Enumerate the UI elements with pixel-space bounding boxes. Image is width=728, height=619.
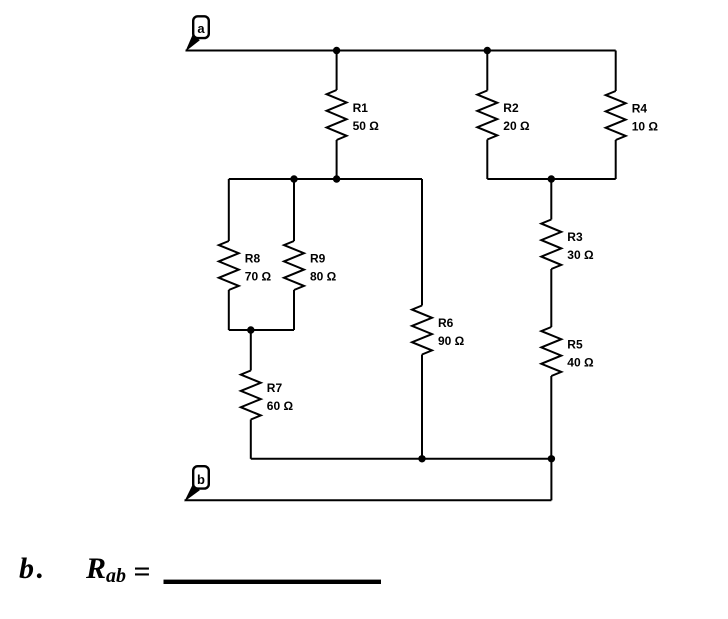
junction: top rail / R2 top <box>484 47 491 54</box>
label R7 60 Ω <box>267 381 294 413</box>
label R4 10 Ω <box>632 102 659 134</box>
terminal a (callout box with letter a and tail) <box>185 16 209 51</box>
svg-text:R2: R2 <box>503 101 519 115</box>
svg-text:80 Ω: 80 Ω <box>310 270 337 284</box>
label R9 80 Ω <box>310 252 337 284</box>
wire: R8-R9 bottom connecting wire <box>229 329 294 331</box>
junction: inner bottom rail / drop to b rail <box>548 455 555 462</box>
svg-text:10 Ω: 10 Ω <box>632 120 659 134</box>
wire: R2-R4 bottom connecting wire <box>487 178 615 180</box>
svg-text:R5: R5 <box>567 338 583 352</box>
junction: middle rail / R9 top <box>290 175 297 182</box>
resistor R5 <box>541 327 561 459</box>
svg-text:R9: R9 <box>310 252 326 266</box>
caption: answer blank underline <box>164 580 382 584</box>
junction: top rail / R1 top <box>333 47 340 54</box>
label R8 70 Ω <box>245 252 272 284</box>
junction: inner bottom rail / R6 bottom <box>418 455 425 462</box>
resistor R6 <box>412 179 432 459</box>
svg-text:50 Ω: 50 Ω <box>353 119 380 133</box>
svg-text:b: b <box>197 472 205 487</box>
svg-text:40 Ω: 40 Ω <box>567 356 594 370</box>
wire: inner bottom rail (R7, R6, R5 bottoms) <box>251 458 552 460</box>
svg-text:90 Ω: 90 Ω <box>438 334 465 348</box>
label R1 50 Ω <box>353 101 380 133</box>
wire: top rail from terminal a to R4 top <box>186 50 616 52</box>
svg-text:R8: R8 <box>245 252 261 266</box>
svg-text:R1: R1 <box>353 101 369 115</box>
wire: middle rail (R1 bottom node joining R8, R9, R6) <box>229 178 422 180</box>
junction: R8-R9 bottom wire / R7 top <box>247 326 254 333</box>
label R5 40 Ω <box>567 338 594 370</box>
svg-text:R7: R7 <box>267 381 283 395</box>
terminal b (callout box with letter b and tail) <box>184 466 209 501</box>
wire: b rail from terminal b to drop wire <box>185 499 552 501</box>
junction: middle rail / R1 bottom <box>333 175 340 182</box>
resistor R4 <box>606 51 626 180</box>
resistor R3 <box>541 179 561 327</box>
svg-text:R3: R3 <box>567 230 583 244</box>
svg-text:70 Ω: 70 Ω <box>245 270 272 284</box>
svg-text:R6: R6 <box>438 316 454 330</box>
svg-text:R4: R4 <box>632 102 648 116</box>
label R6 90 Ω <box>438 316 465 348</box>
resistor R1 <box>327 51 347 180</box>
junction: R2-R4 bottom wire / R3 top <box>548 175 555 182</box>
svg-text:20 Ω: 20 Ω <box>503 119 530 133</box>
svg-text:30 Ω: 30 Ω <box>567 248 594 262</box>
svg-text:60 Ω: 60 Ω <box>267 399 294 413</box>
wire: drop from inner bottom rail to b rail <box>550 459 552 501</box>
label R3 30 Ω <box>567 230 594 262</box>
label R2 20 Ω <box>503 101 530 133</box>
resistor R8 <box>219 179 239 330</box>
svg-text:a: a <box>197 21 205 36</box>
resistor R7 <box>241 330 261 459</box>
resistor R2 <box>477 51 497 180</box>
svg-text:b.: b. <box>19 552 43 585</box>
resistor R9 <box>284 179 304 330</box>
